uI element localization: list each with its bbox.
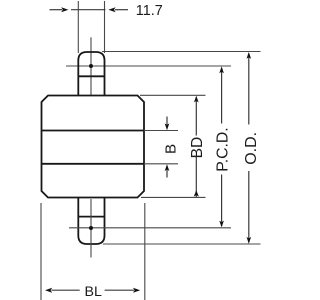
top roller center horizontal line (P.C.D. extension) (66, 65, 231, 67)
BL dimension line right segment (105, 289, 134, 291)
BD dimension line lower (195, 157, 197, 198)
O.D. dimension line upper (248, 54, 250, 125)
arrowhead 11.7 right (points left) (108, 7, 115, 12)
top roller lower edge line (78, 75, 104, 77)
BL dimension line left segment (52, 289, 80, 291)
BD top extension line (140, 94, 206, 96)
body upper tooth-gap line (42, 130, 145, 132)
dimension line 11.7 left tail (50, 9, 63, 11)
BD dimension line upper (195, 98, 197, 136)
extension line left of 11.7 (roller left edge) (77, 1, 79, 53)
svg-text:O.D.: O.D. (243, 132, 260, 165)
svg-text:B: B (162, 144, 179, 154)
arrowhead P.C.D. top (points up) (219, 66, 224, 73)
arrowhead P.C.D. bottom (points down) (219, 221, 224, 228)
B dimension upper tail (166, 117, 168, 126)
svg-text:BL: BL (85, 284, 102, 300)
bottom roller center vertical line (90, 199, 92, 258)
B upper extension line (144, 130, 178, 132)
bottom roller outline (78, 198, 104, 245)
arrowhead BL right (points right) (133, 288, 140, 293)
top roller center dot (89, 64, 93, 68)
dimension line 11.7 middle segment (71, 9, 106, 11)
arrowhead 11.7 left (points right) (61, 7, 68, 12)
bottom roller center dot (89, 226, 93, 230)
arrowhead BL left (points left) (45, 288, 52, 293)
B lower extension line (144, 163, 178, 165)
P.C.D. dimension line lower (221, 175, 223, 227)
O.D. dimension line lower (248, 171, 250, 242)
O.D. bottom extension line (103, 243, 261, 245)
B dimension lower tail (166, 170, 168, 178)
arrowhead O.D. bottom (points down) (247, 237, 252, 244)
arrowhead B lower (points up) (165, 164, 170, 171)
BD bottom extension line (141, 196, 206, 198)
bottom roller center horizontal line (P.C.D. extension) (69, 227, 231, 229)
extension line right of 11.7 (roller right edge) (104, 1, 106, 53)
bottom roller upper edge line (78, 216, 104, 218)
body lower tooth-gap line (42, 163, 145, 165)
O.D. top extension line (102, 51, 261, 53)
arrowhead BD top (points up) (194, 96, 199, 103)
arrowhead BD bottom (points up, as drawn) (194, 190, 199, 196)
sprocket body outline (42, 96, 145, 198)
dimension line 11.7 right tail (115, 9, 128, 11)
arrowhead B upper (points down) (165, 123, 170, 130)
svg-text:P.C.D.: P.C.D. (214, 127, 231, 171)
BL right extension line (144, 203, 146, 300)
BL left extension line (40, 203, 42, 300)
arrowhead O.D. top (points up) (247, 52, 252, 59)
svg-text:BD: BD (189, 137, 206, 159)
top roller center vertical line (90, 37, 92, 95)
P.C.D. dimension line upper (221, 68, 223, 124)
top roller outline (78, 52, 104, 96)
svg-text:11.7: 11.7 (136, 3, 163, 19)
